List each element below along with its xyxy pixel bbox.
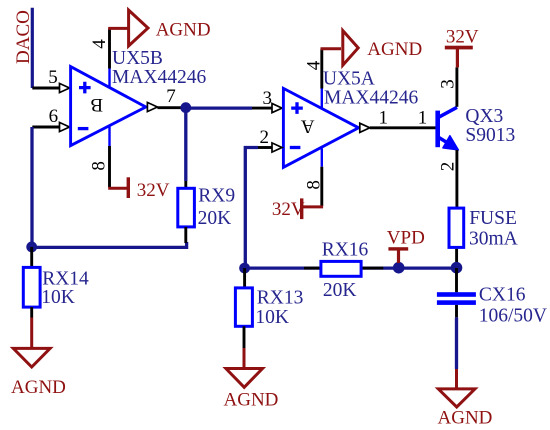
power 32V bar (UX5A pin8) [300,198,303,219]
pin 5 arrow [60,83,70,92]
pin 4 of UX5B (blue segment) [108,69,110,88]
pin 4 of UX5A (black segment) [320,49,323,89]
svg-text:32V: 32V [446,27,479,48]
QX3 collector diagonal [438,107,457,118]
pin 3 arrow [272,104,282,113]
pin number 8 (UX5A) [303,180,324,190]
value 20K (RX16) [323,280,357,301]
pin 3 wire (op-amp A +IN) [252,107,273,110]
pin 6 arrow [60,122,70,131]
RX13 bottom pin black [243,326,246,348]
svg-text:4: 4 [89,39,110,49]
pin 8 of UX5B (blue segment) [108,126,110,146]
svg-text:10K: 10K [255,307,289,328]
svg-text:6: 6 [49,106,59,127]
power label 32V (mid left) [137,180,170,201]
power AGND stem (RX14) [30,318,33,348]
wire VPD horizontal net [245,266,457,269]
CX16 bottom pin black [455,305,458,318]
svg-text:5: 5 [48,67,58,88]
QX3 emitter arrow [443,136,458,150]
pin 8 of UX5B (black segment) [108,146,111,187]
pin 2 arrow [272,143,282,152]
svg-text:30mA: 30mA [469,229,518,250]
pin 2 wire black [258,146,273,149]
power label AGND (top middle) [367,39,422,60]
designator UX5B [112,48,163,69]
value 10K (RX14) [41,287,75,308]
svg-text:20K: 20K [323,280,357,301]
value MAX44246 (UX5A) [324,88,419,109]
svg-text:MAX44246: MAX44246 [324,88,419,109]
op-amp A minus symbol [290,146,301,149]
svg-text:RX16: RX16 [322,240,369,261]
resistor RX13 [235,288,252,326]
pin number 5 [48,67,58,88]
junction dot node pin2-net [239,263,250,274]
designator UX5A [323,69,375,90]
power 32V wire (UX5B pin8) [108,187,127,190]
pin number 3 (op-amp A) [263,88,273,109]
pin number 6 [49,106,59,127]
junction dot node feedback-left [26,242,37,253]
power AGND wire (UX5B pin4) [108,27,129,30]
pin number 4 (UX5B) [89,39,110,49]
svg-text:8: 8 [89,161,110,171]
svg-text:UX5A: UX5A [323,69,375,90]
svg-text:S9013: S9013 [465,125,515,146]
svg-text:7: 7 [166,86,176,107]
svg-text:AGND: AGND [11,377,66,398]
svg-text:AGND: AGND [367,39,422,60]
svg-text:VPD: VPD [387,228,425,249]
pin number 1 (QX3 base) [418,108,428,129]
net label DACO [13,10,34,64]
pin 1 output arrow (UX5A) [360,123,370,132]
svg-text:RX9: RX9 [198,186,235,207]
power AGND wire (UX5A pin4) [321,47,342,50]
svg-text:2: 2 [260,127,270,148]
capacitor CX16 bottom plate [437,300,476,305]
power label VPD [387,228,425,249]
wire net7 down to RX9 [184,108,187,181]
svg-text:AGND: AGND [156,20,211,41]
op-amp A plus symbol [291,102,303,114]
value MAX44246 (UX5B) [112,67,207,88]
pin 7 wire [157,106,186,109]
svg-text:4: 4 [303,60,324,70]
designator RX16 [322,240,369,261]
svg-text:B: B [90,94,103,115]
svg-text:32V: 32V [137,180,170,201]
pin number 8 (UX5B) [89,161,110,171]
wire feedback left vertical [30,127,33,247]
svg-text:10K: 10K [41,287,75,308]
capacitor CX16 top plate [437,292,476,297]
designator RX13 [257,287,304,308]
resistor RX13 top pin black [243,268,246,288]
svg-text:32V: 32V [272,199,305,220]
transistor QX3 base bar [435,111,440,148]
power 32V bar (UX5B pin8) [127,177,130,198]
pin 2 wire vertical (op-amp A -IN) [245,148,258,269]
RX16 right pin black [361,267,383,270]
junction dot node VPD [393,262,405,274]
RX16 left pin black [304,267,321,270]
designator RX14 [42,269,89,290]
power AGND stem (bottom right) [455,369,458,389]
power label 32V (top right) [446,27,479,48]
junction dot node emitter-net [451,262,463,274]
pin number 3 (QX3 collector) [437,79,458,89]
value S9013 [465,125,515,146]
power label AGND (top left) [156,20,211,41]
pin 4 of UX5B (black segment) [108,29,111,69]
RX9 bottom pin black [184,227,187,243]
wire emitter node to capacitor [455,268,458,292]
pin number 7 [166,86,176,107]
pin 8 of UX5A (blue segment) [321,149,323,167]
power AGND symbol (bottom middle) [226,369,263,388]
fuse FUSE rectangle [449,208,464,247]
svg-text:106/50V: 106/50V [479,305,547,326]
op-amp B plus symbol [79,82,91,94]
svg-text:AGND: AGND [438,408,493,429]
power label AGND (bottom middle) [224,389,279,410]
wire capacitor to AGND [455,317,458,369]
svg-text:UX5B: UX5B [112,48,163,69]
RX9 top pin black [184,181,187,188]
power VPD bar [388,247,408,250]
svg-text:RX13: RX13 [257,287,304,308]
designator CX16 [479,284,526,305]
power AGND symbol (bottom right) [438,389,475,407]
resistor RX14 [23,267,40,307]
svg-text:1: 1 [418,108,428,129]
wire DACO vertical [31,8,34,88]
designator QX3 [465,106,503,127]
pin 1 wire (base net) [370,126,436,129]
power label 32V (mid middle) [272,199,305,220]
wire net7 to pin3 [186,106,252,109]
value 20K (RX9) [198,208,232,229]
resistor RX9 [178,188,195,227]
value 106/50V [479,305,547,326]
svg-text:3: 3 [263,88,273,109]
resistor RX16 [321,261,361,276]
op-amp U X5B triangle [71,67,146,146]
pin number 2 (QX3 emitter) [438,162,459,172]
designator RX9 [198,186,235,207]
power label AGND (bottom left) [11,377,66,398]
wire feedback bottom horizontal [32,242,187,247]
designator FUSE [469,208,517,229]
resistor RX14 top pin black [30,247,33,268]
pin 4 of UX5A (blue segment) [321,89,323,108]
value 10K (RX13) [255,307,289,328]
svg-text:8: 8 [303,180,324,190]
power VPD stem [397,250,400,263]
FUSE bottom pin black [455,249,458,268]
power AGND stem (RX13) [243,348,246,369]
pin number 1 (op-amp A out) [379,108,389,129]
QX3 collector wire black [455,67,458,106]
svg-text:AGND: AGND [224,389,279,410]
power label AGND (bottom right) [438,408,493,429]
pin 5 wire (op-amp B +IN) [32,87,60,90]
power AGND symbol (top middle) [343,31,358,66]
RX14 bottom pin black [30,307,33,317]
svg-text:20K: 20K [198,208,232,229]
svg-text:CX16: CX16 [479,284,526,305]
pin 8 of UX5A (black segment) [320,167,323,206]
op-amp B part letter B (rotated 180) [90,94,103,115]
junction dot node net7 [180,102,191,113]
op-amp U X5A triangle [283,88,358,167]
pin 6 wire (op-amp B -IN) [32,126,60,129]
pin number 2 (op-amp A) [260,127,270,148]
power AGND symbol (bottom left) [13,348,50,367]
power 32V stem (top right) [456,49,459,67]
QX3 emitter diagonal [438,137,449,144]
svg-text:FUSE: FUSE [469,208,517,229]
svg-text:3: 3 [437,79,458,89]
svg-text:MAX44246: MAX44246 [112,67,207,88]
pin 7 output arrow (UX5B) [147,102,157,111]
svg-text:QX3: QX3 [465,106,503,127]
svg-text:1: 1 [379,108,389,129]
power 32V wire (UX5A pin8) [303,205,323,208]
pin number 4 (UX5A) [303,60,324,70]
op-amp A part letter A (rotated 180) [301,115,315,136]
op-amp B minus symbol [78,127,89,130]
power AGND symbol (top left) [129,10,148,46]
value 30mA [469,229,518,250]
svg-text:A: A [301,115,315,136]
QX3 emitter wire black down to fuse [455,150,458,207]
power 32V bar (top right) [445,46,473,50]
